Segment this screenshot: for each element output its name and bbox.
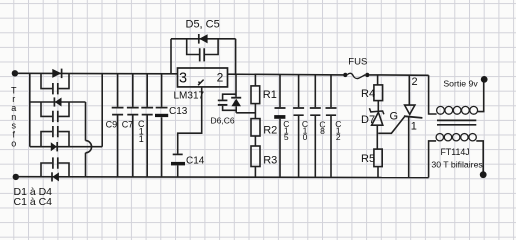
- svg-text:R4: R4: [361, 88, 375, 100]
- LM317 regulator U1: [178, 68, 228, 87]
- wire : output rail from LM317 pin 2 to fuse: [228, 73, 344, 76]
- diode D3: [51, 142, 57, 151]
- wire : branch from pin 2 rail down to D6/C6: [235, 74, 237, 97]
- wire hop (crossing row 3, no connection): [86, 141, 92, 153]
- capacitor C4 (parallel with D4): [41, 157, 69, 177]
- wire : top rail from input A to LM317 pin 3: [15, 72, 178, 75]
- node : lower output terminal: [480, 171, 487, 178]
- wire : R1 to R2: [254, 104, 256, 119]
- svg-text:R2: R2: [263, 125, 277, 137]
- label C11: [138, 119, 145, 144]
- wire : rail corner down to filter choke top winding: [429, 75, 437, 114]
- resistor R1: [251, 86, 260, 104]
- diode D1: [52, 69, 61, 79]
- diode D4: [52, 172, 59, 181]
- wire : R5 to ground rail: [377, 167, 379, 178]
- svg-text:30 T bifilaires: 30 T bifilaires: [431, 159, 483, 169]
- capacitor C9: [112, 74, 124, 177]
- svg-text:C1 à C4: C1 à C4: [14, 196, 53, 208]
- wire : top winding to output terminal: [478, 83, 484, 112]
- wire : from D6/C6 to R1-R2 junction: [236, 112, 255, 114]
- wire : riser output rail to R1: [254, 75, 256, 86]
- wire : R3 to ground rail: [254, 167, 256, 177]
- capacitor C13 (electrolytic, thick lower plate): [155, 74, 168, 177]
- diode D5: [199, 34, 208, 44]
- wire : vertical joining row 2 to bottom rail with hop over row 3: [85, 102, 87, 177]
- svg-text:2: 2: [336, 132, 341, 142]
- capacitor C10: [293, 75, 304, 177]
- wire : thyristor anode riser from rail: [408, 75, 410, 105]
- label pin 1 (adjust): [198, 80, 204, 86]
- capacitor C1 (parallel with D1): [41, 73, 69, 94]
- wire : left vertical bus joining rows 1-2-3: [29, 73, 31, 146]
- inductor L1 top winding (FT114J): [437, 106, 478, 114]
- resistor R2: [251, 119, 260, 136]
- svg-text:1: 1: [411, 121, 417, 133]
- resistor R4: [374, 85, 383, 101]
- svg-text:2: 2: [217, 70, 224, 84]
- svg-text:3: 3: [179, 71, 187, 87]
- svg-text:8: 8: [320, 126, 325, 136]
- capacitor C12: [326, 75, 337, 177]
- svg-text:1: 1: [139, 134, 144, 144]
- svg-text:R3: R3: [263, 154, 277, 166]
- svg-text:FUS: FUS: [348, 57, 367, 68]
- capacitor C6 (parallel with D6): [218, 94, 236, 110]
- resistor R3: [251, 146, 260, 167]
- wire : LM317 pin 1 (adjust) down and left to C14: [178, 87, 202, 154]
- wire : riser rail to R4: [377, 75, 379, 85]
- svg-text:R5: R5: [361, 153, 375, 165]
- svg-text:D6,C6: D6,C6: [211, 115, 235, 125]
- wire : D5/C5 top branch: [171, 38, 236, 40]
- ferrite core: [437, 120, 476, 124]
- capacitor C15 (electrolytic, thick lower plate): [274, 75, 285, 177]
- capacitor C14 (electrolytic, thick lower plate): [171, 154, 185, 176]
- svg-text:FT114J: FT114J: [441, 147, 470, 157]
- wire : row 3 horizontal: [30, 146, 102, 148]
- svg-text:C7: C7: [122, 119, 134, 129]
- svg-text:R1: R1: [263, 89, 277, 101]
- svg-text:C14: C14: [186, 155, 205, 166]
- svg-text:5: 5: [284, 132, 289, 142]
- wire : R2 to R3: [254, 136, 256, 146]
- capacitor C7: [127, 74, 139, 177]
- wire : bottom ground rail: [16, 176, 429, 179]
- svg-text:0: 0: [303, 132, 308, 142]
- node A : AC input terminal top-left: [12, 70, 18, 76]
- thyristor Q1: [404, 105, 423, 178]
- diode D6: [231, 98, 241, 113]
- svg-text:LM317: LM317: [174, 91, 205, 102]
- inductor L1 bottom winding (FT114J): [436, 134, 476, 141]
- node B : AC input terminal bottom-left: [13, 174, 19, 180]
- svg-text:Sortie 9v: Sortie 9v: [443, 78, 478, 88]
- svg-text:D5, C5: D5, C5: [186, 19, 220, 31]
- svg-text:2: 2: [412, 76, 418, 88]
- wire : bottom winding to lower output terminal: [476, 141, 483, 172]
- svg-text:C13: C13: [169, 106, 188, 117]
- resistor R5: [374, 149, 382, 167]
- fuse FUS: [343, 73, 369, 79]
- capacitor C8: [310, 75, 321, 177]
- wire : ground rail corner up to bottom winding: [429, 141, 437, 178]
- label C8: [319, 120, 325, 137]
- label C15: [283, 119, 289, 142]
- svg-text:D7: D7: [361, 114, 375, 126]
- svg-text:C9: C9: [106, 119, 118, 129]
- node : Sortie 9v output terminal: [481, 76, 488, 83]
- label Transfo: [11, 85, 17, 148]
- wire : D5/C5 right riser to output rail: [235, 39, 237, 74]
- wire : D5/C5 left riser from top rail: [170, 39, 172, 74]
- label C10: [302, 119, 308, 142]
- zener diode D7: [369, 108, 384, 149]
- wire : rail from fuse to transformer corner: [369, 74, 428, 76]
- capacitor C2 (parallel with D2): [41, 102, 69, 122]
- label C12: [335, 119, 341, 142]
- wire : riser joining row 3 to top rail: [101, 74, 103, 147]
- diode D2: [54, 97, 61, 106]
- svg-text:G: G: [390, 111, 399, 123]
- capacitor C5 (parallel with D5): [187, 39, 218, 62]
- wire : gate branch from D7/R5 junction: [378, 117, 404, 133]
- capacitor C11: [141, 74, 153, 177]
- capacitor C3 (parallel with D3): [41, 126, 69, 147]
- wire : row 2 horizontal: [30, 101, 86, 103]
- wire : R4 to D7: [377, 101, 379, 111]
- svg-text:o: o: [11, 138, 16, 148]
